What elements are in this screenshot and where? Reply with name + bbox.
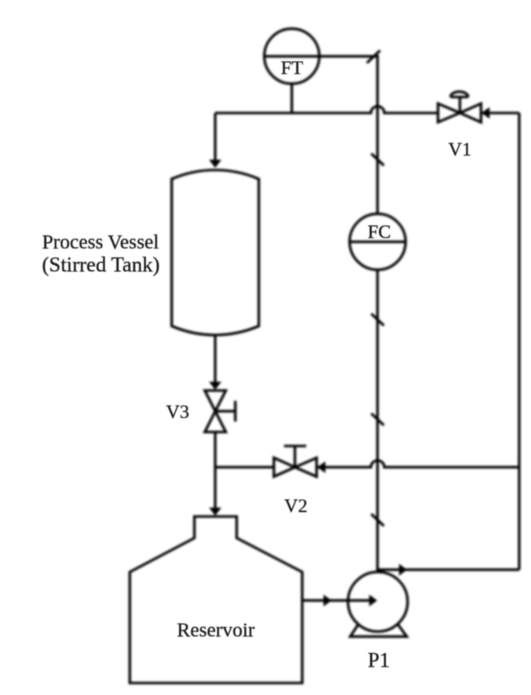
tick: slash on signal line 3: [371, 413, 384, 425]
svg-text:Process Vessel: Process Vessel: [42, 231, 159, 253]
valve V3 body: [205, 391, 226, 433]
svg-text:V1: V1: [448, 140, 471, 161]
wire: suction line inside pump: [327, 599, 371, 602]
wire: junction to valve V2: [215, 466, 274, 469]
tick: slash on FT signal line at corner: [367, 50, 380, 63]
valve V1 body: [438, 104, 481, 123]
arrow into reservoir: [209, 508, 221, 516]
valve V1 actuator dome: [451, 92, 469, 113]
wire: V2 to riser (hop over signal line): [316, 461, 519, 468]
wire: pipe V1 right to riser corner: [481, 112, 519, 115]
arrow at pump center: [369, 595, 377, 607]
wire: right riser pipe: [518, 113, 521, 570]
wire: signal line FT to FC to P1: [320, 56, 378, 601]
svg-text:(Stirred Tank): (Stirred Tank): [42, 252, 160, 276]
pump P1 base: [350, 623, 407, 637]
pump P1 casing circle: [348, 572, 408, 632]
wire: reservoir to pump suction: [302, 599, 330, 602]
arrow into valve V1: [481, 107, 489, 119]
tick: slash on signal line 4: [371, 514, 384, 526]
instrument FT circle: [264, 29, 319, 84]
valve V2 body: [274, 458, 317, 477]
arrow into valve V3: [209, 382, 221, 390]
valve V2 handle: [284, 446, 306, 467]
tick: slash on signal line 2: [371, 314, 384, 326]
arrow on suction line: [324, 595, 332, 607]
svg-text:P1: P1: [368, 648, 390, 672]
wire: top pipe V1 to vessel (hop over signal line): [215, 106, 438, 113]
wire: FT stem: [290, 84, 293, 114]
wire: V3 to reservoir drop: [214, 432, 217, 509]
wire: pump discharge pipe: [378, 568, 520, 571]
svg-text:FC: FC: [368, 222, 391, 243]
process vessel (stirred tank): [172, 170, 259, 335]
instrument FC circle: [350, 214, 406, 270]
wire: vessel outlet to valve V3: [214, 333, 217, 383]
svg-text:FT: FT: [281, 58, 304, 79]
svg-text:Reservoir: Reservoir: [177, 620, 255, 642]
arrow on discharge line: [399, 564, 407, 576]
arrow into vessel top: [209, 160, 221, 168]
tick: slash on signal line 1: [371, 154, 384, 166]
valve V3 handle: [215, 401, 235, 422]
svg-text:V2: V2: [284, 496, 307, 517]
arrow into valve V2: [317, 461, 325, 473]
svg-text:V3: V3: [166, 402, 189, 423]
reservoir tank: [130, 517, 302, 684]
wire: vessel inlet drop: [214, 113, 217, 161]
